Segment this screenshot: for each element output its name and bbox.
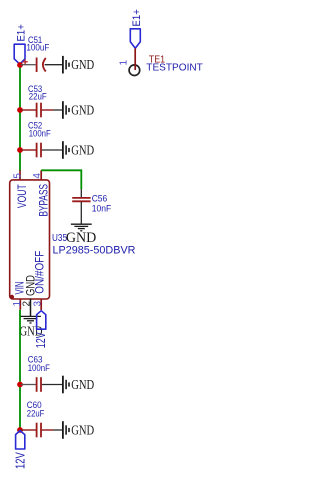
svg-text:GND: GND	[71, 102, 94, 117]
svg-text:5: 5	[13, 173, 24, 179]
svg-text:3: 3	[32, 300, 43, 306]
capacitor C53	[21, 103, 62, 118]
earth ground (C56)	[71, 224, 92, 231]
svg-text:12V: 12V	[34, 332, 48, 348]
node junction C63	[17, 382, 23, 388]
op-amp U35 regulator body	[10, 180, 50, 299]
capacitor C56	[72, 198, 90, 201]
ground GND (C53)	[63, 101, 69, 119]
svg-text:TESTPOINT: TESTPOINT	[146, 63, 203, 74]
svg-text:E1+: E1+	[16, 24, 28, 41]
ground GND (C60)	[63, 421, 69, 439]
earth ground (pin 2)	[20, 316, 41, 323]
node junction C52	[17, 147, 23, 153]
capacitor C52	[21, 143, 62, 158]
pin 3 ON stub	[40, 299, 42, 311]
pin 5 VOUT stub	[19, 170, 21, 180]
pin 1 VIN stub	[19, 299, 21, 310]
svg-text:GND: GND	[71, 142, 94, 157]
node dot box corner	[10, 295, 14, 299]
svg-text:GND: GND	[66, 230, 97, 246]
wire VOUT net vertical	[19, 65, 21, 171]
svg-text:4: 4	[32, 173, 43, 179]
wire BYPASS to C56	[41, 170, 81, 189]
svg-text:C56: C56	[92, 194, 108, 204]
pin 4 BYPASS stub	[40, 170, 42, 180]
capacitor C60	[21, 423, 62, 438]
testpoint TE1 pin wire	[134, 48, 136, 70]
svg-text:E1+: E1+	[131, 9, 143, 26]
supply flag E1+ (testpoint)	[130, 29, 140, 49]
testpoint TE1 circle	[129, 65, 140, 76]
svg-text:100uF: 100uF	[26, 43, 49, 53]
node junction C53	[17, 107, 23, 113]
capacitor C51 (polarized)	[21, 58, 62, 73]
svg-text:10nF: 10nF	[92, 204, 112, 214]
node junction C51	[17, 62, 23, 68]
svg-text:GND: GND	[71, 422, 94, 437]
capacitor C63	[21, 377, 62, 392]
supply flag E1+ (top left)	[14, 44, 25, 64]
svg-text:1: 1	[119, 59, 130, 65]
supply flag 12V (bottom)	[16, 431, 25, 449]
svg-text:22uF: 22uF	[29, 92, 47, 102]
svg-text:GND: GND	[71, 57, 94, 72]
supply flag 12V (pin 3)	[37, 311, 46, 330]
wire VIN net vertical	[19, 310, 21, 430]
svg-text:VOUT: VOUT	[15, 184, 29, 208]
pin 2 GND stub (black)	[30, 299, 32, 317]
svg-text:22uF: 22uF	[27, 409, 45, 419]
svg-text:12V: 12V	[14, 452, 28, 469]
ground GND (C51)	[63, 56, 69, 74]
svg-text:LP2985-50DBVR: LP2985-50DBVR	[53, 244, 136, 256]
ground GND (C63)	[63, 376, 69, 394]
wire C56 to earth	[80, 202, 82, 224]
svg-text:BYPASS: BYPASS	[36, 184, 50, 217]
svg-text:ON/#OFF: ON/#OFF	[32, 251, 46, 294]
svg-text:GND: GND	[71, 377, 94, 392]
svg-text:2: 2	[22, 300, 33, 306]
svg-text:100nF: 100nF	[28, 363, 51, 373]
ground GND (C52)	[63, 141, 69, 159]
svg-text:100nF: 100nF	[29, 128, 51, 138]
node junction C60	[17, 427, 23, 433]
